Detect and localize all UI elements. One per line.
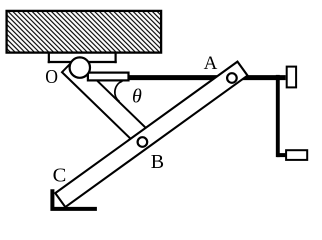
wall support at C [52,189,97,209]
crank stub to lower grip [277,153,286,157]
pivot circle O [70,57,90,77]
svg-text:C: C [53,164,67,186]
lower grip handle [286,150,307,160]
horizontal rod (thick line) [129,75,285,80]
svg-text:θ: θ [132,85,142,107]
svg-text:B: B [151,151,164,173]
pin A [227,73,237,83]
bracket hanger bar [48,61,117,63]
bracket right leg [114,52,116,63]
upper grip handle [287,67,296,88]
hatched fixed block [7,11,162,53]
bar C-B-A [55,62,247,207]
rod collar rectangle at O [88,73,129,81]
svg-text:A: A [204,53,218,74]
angle arc theta [115,81,123,101]
bracket left leg [48,52,50,63]
link OB [62,59,154,149]
svg-text:O: O [45,66,58,89]
pin B [138,137,148,147]
crank vertical link [276,75,280,157]
